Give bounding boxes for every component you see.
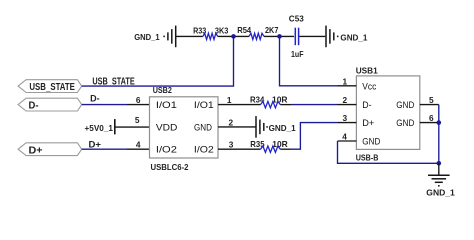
svg-text:+5V0_1: +5V0_1 <box>85 123 114 133</box>
svg-text:GND: GND <box>194 123 212 133</box>
pin 3 of USB2 <box>218 148 240 150</box>
svg-text:Vcc: Vcc <box>362 81 376 91</box>
svg-text:I/O2: I/O2 <box>194 145 214 155</box>
svg-text:I/O1: I/O1 <box>156 100 177 110</box>
svg-text:1uF: 1uF <box>291 49 304 59</box>
pin 1 of USB2 <box>218 104 240 106</box>
junction node A (USB_STATE / R33 / R54) <box>231 34 236 39</box>
junction at bottom wire <box>437 161 442 166</box>
wire gnd to R33 <box>176 35 203 37</box>
wire R35 to USB1 pin 3 (jog) <box>280 148 291 150</box>
svg-text:D-: D- <box>29 101 39 112</box>
resistor R33 zigzag <box>203 33 218 39</box>
pin 5 of USB2 (VDD) <box>115 126 150 128</box>
svg-text:GND_1: GND_1 <box>426 188 455 198</box>
svg-text:GND_1: GND_1 <box>269 123 296 133</box>
svg-text:GND_1: GND_1 <box>134 32 160 42</box>
svg-text:2: 2 <box>343 95 348 105</box>
svg-text:GND_1: GND_1 <box>340 32 367 42</box>
svg-text:GND: GND <box>396 118 414 128</box>
IC U-USB2 body USBLC6-2 <box>150 97 219 158</box>
port USB_STATE <box>18 80 82 93</box>
resistor R54 zigzag <box>249 33 264 39</box>
svg-text:USBLC6-2: USBLC6-2 <box>151 162 189 172</box>
ground GND_1 top-right symbol <box>326 26 338 48</box>
pin 6 of USB2 <box>127 104 150 106</box>
svg-text:4: 4 <box>342 131 347 141</box>
port D- <box>18 98 82 111</box>
power port +5V0_1 bar <box>114 119 116 134</box>
wire USB_STATE to node A <box>82 36 234 86</box>
svg-text:5: 5 <box>429 95 434 105</box>
svg-text:GND: GND <box>396 100 414 110</box>
USB2 inner pin names <box>156 100 214 155</box>
capacitor C53 plates <box>295 28 298 46</box>
junction node B (Vcc / R54 / C53) <box>277 34 282 39</box>
svg-text:6: 6 <box>429 113 434 123</box>
svg-text:3: 3 <box>343 113 348 123</box>
wire D+ port to pin 4 <box>82 148 127 150</box>
svg-text:1: 1 <box>343 76 348 86</box>
pin 6 of USB1 <box>420 122 439 124</box>
port D+ <box>18 143 82 156</box>
svg-text:VDD: VDD <box>156 123 178 133</box>
svg-text:D+: D+ <box>89 140 102 150</box>
resistor R34 zigzag <box>261 101 281 107</box>
svg-text:USB-B: USB-B <box>356 152 379 162</box>
svg-text:USB2: USB2 <box>153 85 173 95</box>
svg-text:4: 4 <box>136 140 141 150</box>
wire pin 4 loop below USB1 <box>338 141 439 163</box>
wire node B to USB1 Vcc <box>280 36 338 85</box>
pin 1 of USB1 <box>338 85 357 87</box>
wire pin1 to R34 <box>240 104 261 106</box>
pin 4 of USB2 <box>127 148 150 150</box>
svg-text:R35: R35 <box>250 139 265 149</box>
wire R54 to C53 <box>264 35 294 37</box>
svg-text:3: 3 <box>229 140 234 150</box>
svg-text:I/O2: I/O2 <box>156 145 177 155</box>
svg-text:2: 2 <box>229 117 234 127</box>
svg-text:USB_STATE: USB_STATE <box>29 82 75 93</box>
wire R33 to R54 <box>218 35 249 37</box>
svg-text:C53: C53 <box>289 14 304 24</box>
pin 2 of USB2 (GND) <box>218 126 256 128</box>
svg-text:D-: D- <box>362 100 371 110</box>
svg-text:10R: 10R <box>272 139 288 149</box>
pin 4 of USB1 <box>338 140 357 142</box>
wire C53 to right ground <box>299 35 325 37</box>
svg-text:D+: D+ <box>362 118 374 128</box>
svg-text:5: 5 <box>135 115 140 125</box>
ground GND_1 bottom symbol <box>428 175 450 186</box>
wire pin5/pin6 down right side <box>438 105 440 164</box>
svg-text:6: 6 <box>136 95 141 105</box>
wire D- port to pin 6 <box>82 104 127 106</box>
svg-text:GND: GND <box>362 137 380 147</box>
svg-text:1: 1 <box>227 95 232 105</box>
svg-text:R54: R54 <box>237 25 251 35</box>
junction at pin 6 <box>437 120 442 125</box>
connector USB1 body <box>356 76 419 149</box>
ground GND_1 top-left symbol <box>164 26 176 48</box>
pin 2 of USB1 <box>338 104 357 106</box>
wire pin3 to R35 <box>240 148 261 150</box>
svg-text:I/O1: I/O1 <box>194 100 214 110</box>
pin 5 of USB1 <box>420 104 439 106</box>
ground GND_1 at USB2 pin 2 <box>256 116 267 138</box>
pin 3 of USB1 <box>338 122 357 124</box>
wire R34 to USB1 pin 2 <box>280 104 291 106</box>
USB1 inner pin names <box>362 81 414 146</box>
svg-text:3K3: 3K3 <box>215 25 229 35</box>
svg-text:D-: D- <box>90 94 100 104</box>
resistor R35 zigzag <box>261 146 281 152</box>
ground GND_1 bottom lead <box>438 163 440 175</box>
svg-text:USB1: USB1 <box>356 65 378 75</box>
svg-text:2K7: 2K7 <box>265 25 279 35</box>
svg-text:D+: D+ <box>29 145 43 156</box>
